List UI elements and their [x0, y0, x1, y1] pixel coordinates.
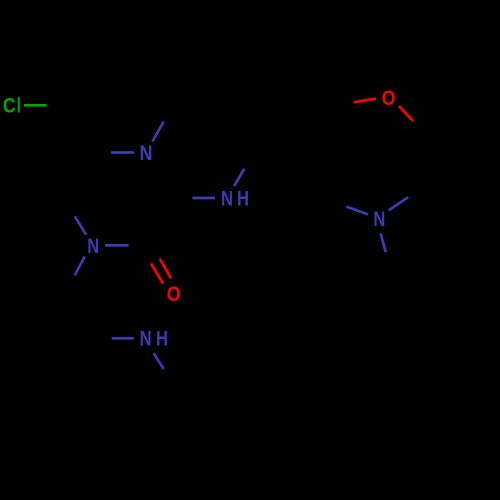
svg-text:l: l [17, 95, 21, 118]
atom Cl (chlorine label) [3, 95, 21, 118]
svg-text:H: H [156, 328, 168, 351]
double bond C=O line 2 half (red) [151, 264, 163, 284]
bond NH-C lower-right half (blue) [154, 353, 164, 369]
atom N-H (secondary amine, middle) [221, 188, 249, 211]
bond N2-C upper-left half (blue) [75, 216, 86, 234]
bond O-C left half (red) [354, 99, 376, 103]
svg-text:C: C [3, 95, 16, 118]
atom N-H (secondary amine, bottom) [140, 328, 168, 351]
svg-text:O: O [167, 283, 181, 306]
bond N1-C upper-right half (blue) [152, 122, 163, 142]
svg-text:N: N [140, 142, 153, 165]
bond N2-C lower-left half (blue) [75, 256, 85, 275]
bond N2-C(=O) right half (blue) [105, 244, 129, 247]
svg-text:N: N [221, 188, 233, 211]
bond NH-C left half (blue) [193, 197, 215, 200]
bond N3-C upper-left half (blue) [347, 207, 369, 215]
bond N3-C lower half (blue) [381, 233, 386, 252]
bond NH-C upper-right half (blue) [234, 169, 244, 186]
svg-text:N: N [87, 235, 99, 258]
bond NH-C left half (blue) [112, 337, 134, 340]
svg-text:N: N [140, 328, 152, 351]
bond N1-C left half (blue) [111, 151, 134, 154]
bond N3-C upper-right half (blue) [389, 197, 409, 210]
svg-text:O: O [382, 87, 396, 110]
double bond C=O line 1 half (red) [160, 259, 171, 279]
bond O-C lower-right half (red) [399, 106, 413, 121]
bond Cl-C half (green) [24, 104, 47, 107]
svg-text:N: N [373, 208, 385, 231]
svg-text:H: H [237, 188, 249, 211]
